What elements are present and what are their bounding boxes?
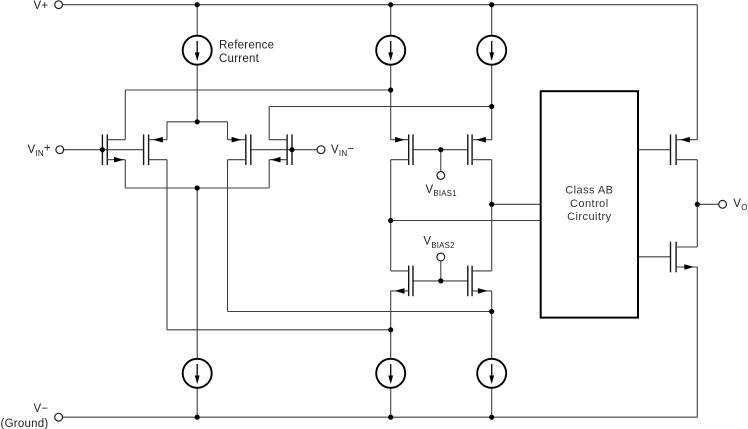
- wire VBIAS1 stub: [440, 150, 442, 172]
- wire M2 drain to node C1: [167, 329, 391, 331]
- wire M7 source down to node C1: [390, 291, 392, 330]
- svg-text:V−: V−: [34, 403, 49, 415]
- svg-text:Control: Control: [570, 198, 609, 210]
- wire I3 to node B2: [491, 65, 493, 107]
- wire class AB to M10 gate: [638, 256, 671, 258]
- wire output node to VO terminal: [697, 203, 718, 205]
- current source I5: [376, 359, 405, 388]
- wire M1 source down: [124, 160, 126, 188]
- transistor M4 NMOS input V_IN-: [269, 134, 292, 165]
- wire right rail from output NMOS source to V- rail: [696, 267, 698, 417]
- node top rail / I2: [388, 2, 393, 7]
- current source I2: [376, 36, 405, 65]
- wire PMOS pair tail bridge: [167, 121, 228, 123]
- wire VBIAS2 gate line: [413, 280, 468, 282]
- terminal V_IN-: [317, 146, 325, 154]
- wire node C2 to I6: [491, 312, 493, 359]
- svg-text:(Ground): (Ground): [1, 418, 49, 429]
- wire bottom current source I4 to rail: [196, 388, 198, 417]
- node M1 gate: [100, 147, 105, 152]
- node bottom rail / I4: [195, 415, 200, 420]
- node M4 gate: [289, 147, 294, 152]
- wire M4 source down: [268, 160, 270, 188]
- node PMOS tail: [195, 119, 200, 124]
- wire M5 source down through node to M7 drain: [390, 160, 392, 271]
- wire right rail from V+ to output PMOS source: [696, 5, 698, 140]
- node NMOS tail: [195, 185, 200, 190]
- node class AB in1: [489, 202, 494, 207]
- wire I2 to node B1: [390, 65, 392, 90]
- wire M6 source down through output node to M8 drain: [491, 160, 493, 271]
- current source I1 reference current: [183, 36, 212, 65]
- wire node C1 to I5: [390, 330, 392, 359]
- terminal V_IN+: [56, 146, 64, 154]
- wire M3 drain to node C2: [228, 311, 492, 313]
- wire bottom V- rail: [63, 416, 698, 418]
- transistor M3 PMOS input V_IN-: [228, 134, 251, 165]
- terminal VBIAS1: [437, 172, 445, 180]
- wire M8 source down to node C2: [491, 291, 493, 312]
- wire M1 drain to node B1: [125, 89, 390, 91]
- node B1: [388, 87, 393, 92]
- wire bridge left to M2 source: [166, 122, 168, 140]
- node bottom rail / I5: [388, 415, 393, 420]
- wire VBIAS2 stub: [440, 261, 442, 281]
- wire I5 to rail: [390, 388, 392, 417]
- wire M1 drain up: [124, 90, 126, 140]
- terminal VO: [719, 200, 727, 208]
- wire class AB input 2: [391, 220, 541, 222]
- svg-text:Reference: Reference: [219, 39, 274, 51]
- wire I6 to rail: [491, 388, 493, 417]
- wire output PMOS drain to output node: [696, 160, 698, 205]
- terminal VBIAS2: [437, 253, 445, 261]
- wire output NMOS drain to output node: [696, 204, 698, 247]
- transistor M6 PMOS cascode right: [468, 134, 492, 165]
- wire node B2 to M6 drain: [491, 107, 493, 140]
- wire M3 drain down: [227, 160, 229, 312]
- transistor M8 NMOS cascode right: [468, 266, 492, 297]
- wire V_IN+ input to gates: [64, 149, 144, 151]
- wire tail to bottom current source: [196, 188, 198, 359]
- terminal V-: [55, 413, 63, 421]
- current source I6: [477, 359, 506, 388]
- transistor M1 NMOS input V_IN+: [102, 134, 125, 165]
- transistor M2 PMOS input V_IN+: [144, 134, 167, 165]
- node bottom rail / I6: [489, 415, 494, 420]
- wire reference current top: [196, 5, 198, 36]
- node VBIAS1 gate: [438, 147, 443, 152]
- wire M2 drain down: [166, 160, 168, 330]
- transistor M10 NMOS output: [671, 242, 698, 273]
- wire class AB input 1: [492, 203, 541, 205]
- wire M4 drain to node B2: [269, 106, 492, 108]
- node C1: [388, 327, 393, 332]
- node B2: [489, 104, 494, 109]
- wire M4 drain up: [268, 107, 270, 140]
- wire top V+ rail: [63, 4, 698, 6]
- wire class AB to M9 gate: [638, 149, 671, 151]
- node class AB in2: [388, 218, 393, 223]
- wire node B1 to M5 drain: [390, 90, 392, 140]
- node C2: [489, 309, 494, 314]
- svg-text:V+: V+: [34, 0, 49, 12]
- wire VBIAS1 gate line: [413, 149, 468, 151]
- wire reference current to PMOS pair tail: [196, 65, 198, 122]
- transistor M7 NMOS cascode left: [391, 266, 413, 297]
- node top rail / I3: [489, 2, 494, 7]
- transistor M9 PMOS output: [671, 134, 698, 165]
- svg-text:Current: Current: [219, 53, 260, 65]
- transistor M5 PMOS cascode left: [391, 134, 413, 165]
- block U1 Class AB Control Circuitry: [541, 91, 638, 317]
- current source I3: [477, 36, 506, 65]
- node top rail / reference: [195, 2, 200, 7]
- node output: [695, 202, 700, 207]
- wire I3 top: [491, 5, 493, 36]
- node VBIAS2 gate: [438, 278, 443, 283]
- wire I2 top: [390, 5, 392, 36]
- terminal V+: [55, 1, 63, 9]
- svg-text:Class AB: Class AB: [565, 184, 613, 196]
- wire NMOS pair tail: [125, 187, 269, 189]
- svg-text:Circuitry: Circuitry: [567, 211, 611, 223]
- wire bridge right to M3 source: [227, 122, 229, 140]
- current source I4: [183, 359, 212, 388]
- wire V_IN- input to gates: [251, 149, 317, 151]
